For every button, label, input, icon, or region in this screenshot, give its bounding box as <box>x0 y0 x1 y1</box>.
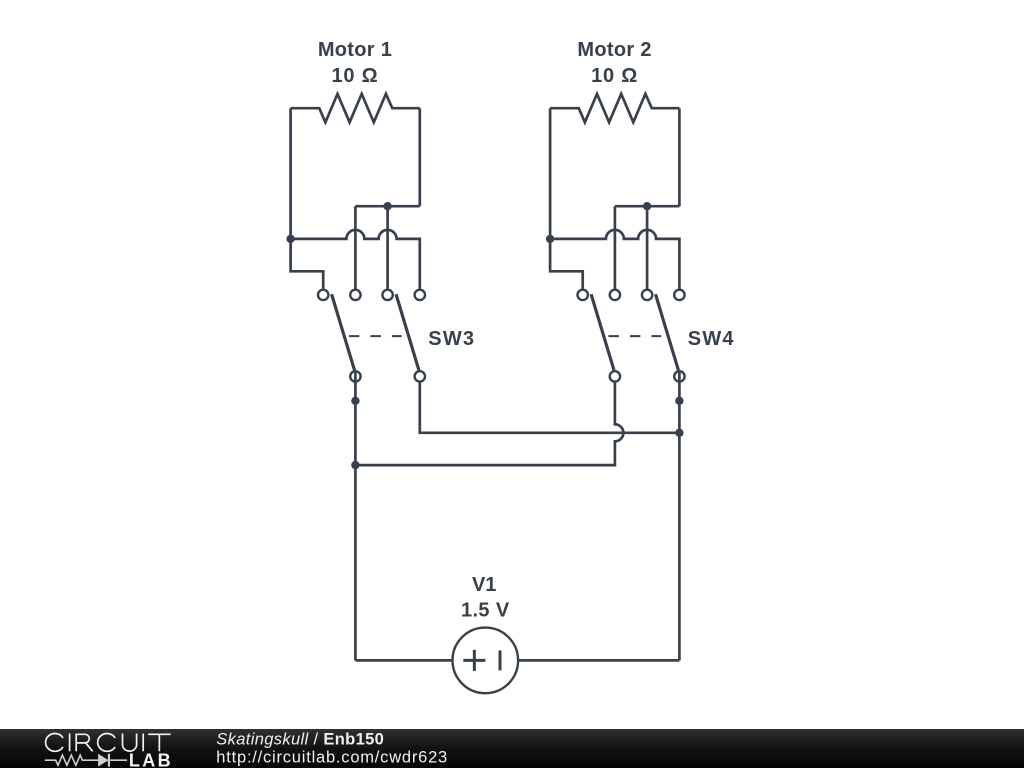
switch SW4 arm 2 <box>656 294 679 370</box>
svg-text:SW4: SW4 <box>688 328 735 350</box>
wire SW4 top cross horizontal <box>615 205 680 208</box>
wire battery right <box>518 659 679 662</box>
wire SW3 T2 vertical <box>354 206 357 289</box>
switch SW4 terminal 1 <box>578 290 588 300</box>
switch SW4 arm 1 <box>591 294 614 370</box>
resistor R2 "Motor 2" <box>550 94 679 122</box>
wire SW3 hop horizontal <box>291 230 420 290</box>
wire SW4 pole2 to battery right <box>678 371 681 661</box>
switch SW3 pole 2 <box>415 371 425 381</box>
switch SW3 terminal 3 <box>382 290 392 300</box>
switch SW3 terminal 1 <box>318 290 328 300</box>
svg-text:V1: V1 <box>472 574 496 596</box>
node junction dot <box>675 429 683 437</box>
svg-text:1.5 V: 1.5 V <box>461 600 510 622</box>
svg-text:LAB: LAB <box>129 750 173 768</box>
switch SW3 pole 1 <box>350 371 360 381</box>
wire line B <box>355 382 623 466</box>
wire SW3 top cross horizontal <box>355 205 419 208</box>
switch SW3 arm 1 <box>332 294 355 370</box>
logo CIRCUIT wordmark <box>46 734 171 752</box>
node junction dot <box>383 202 391 210</box>
svg-text:Motor 2: Motor 2 <box>577 39 651 61</box>
switch SW4 link dashed <box>608 335 661 337</box>
V1 minus bar <box>499 650 502 670</box>
wire SW4 T3 vertical <box>646 206 649 289</box>
switch SW3 link dashed <box>349 335 402 337</box>
node junction dot <box>546 235 554 243</box>
switch SW4 pole 2 <box>674 371 684 381</box>
logo diode triangle <box>98 754 108 767</box>
svg-text:10 Ω: 10 Ω <box>591 65 638 87</box>
voltage source V1 circle <box>453 628 519 694</box>
switch SW3 terminal 2 <box>350 290 360 300</box>
switch SW4 terminal 2 <box>610 290 620 300</box>
switch SW4 terminal 3 <box>642 290 652 300</box>
switch SW3 terminal 4 <box>415 290 425 300</box>
wire Motor1 right vertical <box>418 108 421 206</box>
switch SW4 pole 1 <box>610 371 620 381</box>
svg-text:10 Ω: 10 Ω <box>331 65 378 87</box>
wire SW3 T3 vertical <box>386 206 389 289</box>
svg-text:Skatingskull / Enb150: Skatingskull / Enb150 <box>216 731 384 749</box>
node junction dot <box>351 461 359 469</box>
svg-text:http://circuitlab.com/cwdr623: http://circuitlab.com/cwdr623 <box>216 748 448 766</box>
wire SW4 hop horizontal <box>550 230 679 290</box>
switch SW4 terminal 4 <box>674 290 684 300</box>
node junction dot <box>643 202 651 210</box>
svg-text:Motor 1: Motor 1 <box>318 39 392 61</box>
wire Motor2 left vertical <box>550 108 583 289</box>
switch SW3 arm 2 <box>396 294 419 370</box>
node junction dot <box>286 235 294 243</box>
node junction dot <box>351 397 359 405</box>
node junction dot <box>675 397 683 405</box>
wire battery left <box>355 659 452 662</box>
wire Motor1 left vertical <box>291 108 324 289</box>
logo resistor-diode squiggle <box>45 754 127 767</box>
wire Motor2 right vertical <box>678 108 681 206</box>
wire SW3 pole2 to line A <box>420 382 680 433</box>
svg-text:SW3: SW3 <box>428 328 475 350</box>
resistor R1 "Motor 1" <box>291 94 420 122</box>
wire SW3 pole1 to battery left <box>354 371 357 661</box>
V1 plus sign <box>463 650 485 671</box>
wire SW4 T2 vertical <box>614 206 617 289</box>
